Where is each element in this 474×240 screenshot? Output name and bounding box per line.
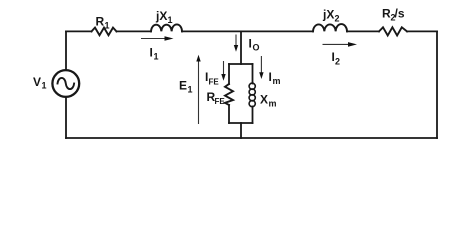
wire jX1 to jX2: [182, 30, 313, 32]
arrow Im: [259, 56, 263, 79]
wire jX2 to R2s: [347, 30, 379, 32]
wire Xm branch upper stub: [252, 64, 254, 84]
arrow E1: [196, 55, 200, 124]
wire top-left segment: [66, 30, 92, 32]
wire R2s to right corner: [407, 30, 437, 32]
svg-text:jX: jX: [322, 8, 334, 22]
inductor Xm: [249, 83, 255, 107]
wire shunt box top bar: [229, 63, 253, 65]
svg-text:I: I: [249, 37, 252, 51]
wire RFE branch upper stub: [228, 64, 230, 84]
svg-text:R: R: [96, 15, 105, 29]
svg-text:FE: FE: [209, 78, 220, 87]
arrow IFE: [221, 61, 225, 81]
wire center tap top: [240, 31, 242, 64]
svg-text:V: V: [33, 75, 41, 89]
wire bottom: [66, 137, 437, 139]
svg-text:E: E: [179, 79, 187, 93]
svg-text:/s: /s: [395, 7, 405, 21]
wire left vertical below source: [65, 97, 67, 138]
svg-text:X: X: [260, 93, 268, 107]
source V1: [52, 70, 79, 97]
svg-text:m: m: [269, 99, 277, 109]
wire right vertical: [436, 31, 438, 138]
inductor jX1: [151, 24, 182, 31]
svg-text:2: 2: [335, 14, 340, 24]
resistor R1: [92, 28, 117, 36]
svg-text:1: 1: [154, 52, 159, 62]
svg-text:2: 2: [335, 57, 340, 67]
svg-text:1: 1: [168, 15, 173, 25]
svg-text:FE: FE: [215, 97, 226, 106]
wire Xm branch lower stub: [252, 107, 254, 124]
source V1 sine: [58, 78, 75, 89]
wire shunt box bottom bar: [229, 122, 253, 124]
svg-text:jX: jX: [155, 9, 167, 23]
wire RFE branch lower stub: [228, 105, 230, 123]
arrow I2: [323, 42, 358, 47]
arrow IO: [234, 35, 238, 52]
svg-text:I: I: [150, 46, 153, 60]
svg-text:I: I: [269, 70, 272, 84]
svg-text:O: O: [253, 43, 260, 53]
svg-text:1: 1: [42, 81, 47, 91]
arrow I1: [141, 36, 174, 41]
resistor RFE: [225, 84, 233, 105]
wire R1 to jX1: [117, 30, 152, 32]
svg-text:1: 1: [188, 85, 193, 95]
svg-text:1: 1: [105, 21, 110, 31]
resistor R2/s: [379, 27, 407, 35]
wire left vertical above source: [65, 31, 67, 70]
svg-text:m: m: [273, 76, 281, 86]
wire center tap bottom: [240, 123, 242, 138]
inductor jX2: [313, 24, 347, 31]
